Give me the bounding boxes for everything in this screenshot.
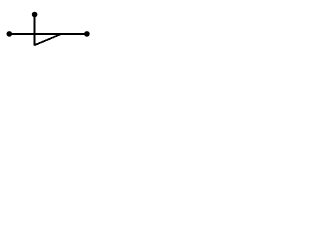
node: right terminal dot: [84, 31, 90, 37]
switch blade (diagonal contact arm): [34, 34, 60, 45]
node: left terminal dot: [7, 31, 13, 37]
node: top terminal dot: [32, 12, 38, 18]
wire: main horizontal conductor: [9, 33, 87, 35]
wire: vertical tap from top terminal: [34, 15, 36, 46]
